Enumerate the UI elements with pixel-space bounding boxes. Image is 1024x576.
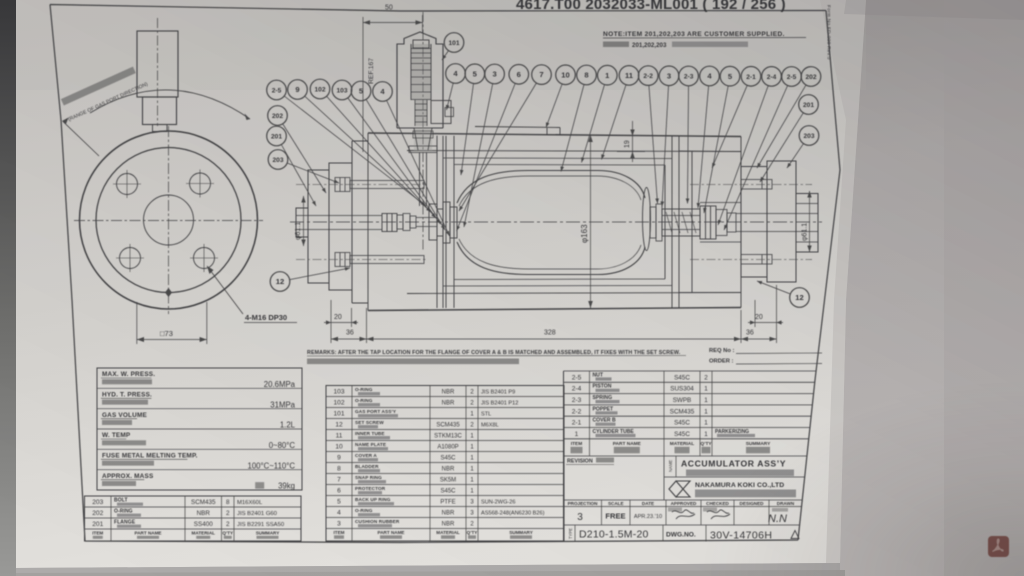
stem entry bands xyxy=(413,131,433,138)
balloon 202l xyxy=(268,106,288,126)
balloon 203l leader xyxy=(287,163,339,183)
flange center hole xyxy=(144,195,194,245)
bladder inner xyxy=(459,176,641,269)
bolt hole bottom-left xyxy=(116,244,144,272)
poppet seat bands xyxy=(650,204,662,241)
drawing frame border xyxy=(50,5,840,543)
balloon 5c xyxy=(351,81,371,101)
dim 19 xyxy=(617,121,645,162)
4-M16 label leader xyxy=(207,266,243,314)
balloon 4a xyxy=(446,64,466,84)
right bolt axis upper xyxy=(690,184,812,186)
balloon 201l xyxy=(267,126,287,146)
gas port leader line xyxy=(63,122,99,157)
dim phi163 xyxy=(590,135,592,308)
bottom dim line xyxy=(331,338,777,340)
balloon 201r leader xyxy=(760,113,803,182)
balloon 11 leader xyxy=(602,85,627,160)
balloon 2-4 leader xyxy=(718,86,768,225)
flange view outer circle xyxy=(80,131,258,309)
valve stem lines xyxy=(420,153,427,207)
gas port stub xyxy=(153,125,168,132)
balloon 103 leader xyxy=(348,98,441,224)
balloon 5b xyxy=(720,66,740,86)
balloon 202r leader xyxy=(757,85,806,168)
balloon 3b leader xyxy=(662,86,669,207)
dim phi61.1 right xyxy=(809,191,811,252)
diamond mark on bolt circle bottom xyxy=(165,288,172,297)
balloon 2-3 leader xyxy=(688,86,689,204)
valve stem taper xyxy=(414,128,432,150)
flange center lines xyxy=(74,126,263,314)
balloon 9 xyxy=(288,80,308,100)
balloon 3a xyxy=(485,64,505,84)
shell outer top xyxy=(368,133,741,137)
gas port range JP label xyxy=(61,67,136,106)
approved signature xyxy=(672,510,695,519)
dim 20 left xyxy=(324,322,358,324)
balloon 102 xyxy=(310,79,330,99)
balloon 8 leader xyxy=(561,85,584,172)
bolt hole bottom-right xyxy=(190,244,218,272)
balloon 9 leader xyxy=(305,96,431,212)
balloon 2-5a leader xyxy=(284,96,426,206)
balloon 202r xyxy=(801,67,821,87)
balloon 203l xyxy=(268,150,288,170)
dim 50 xyxy=(363,15,423,152)
balloon 3b xyxy=(659,66,679,86)
spec table xyxy=(97,368,302,490)
poppet washer xyxy=(716,210,727,236)
lower-left parts table xyxy=(85,496,302,541)
right bolt axis lower xyxy=(690,259,812,261)
bolt hole top-right xyxy=(186,170,214,198)
flange view bolt circle xyxy=(96,148,241,293)
square-73 dim line xyxy=(137,339,207,341)
left pipe stub xyxy=(296,208,308,237)
right parts table xyxy=(563,371,565,542)
right flange plate outer xyxy=(767,161,796,282)
arc small arrow left xyxy=(62,118,69,125)
liner top lines xyxy=(443,158,672,165)
left flange plate outer xyxy=(308,170,329,283)
balloon 5c leader xyxy=(366,99,445,230)
left port bore lines xyxy=(296,216,382,230)
projection header row xyxy=(601,500,603,525)
left bolt upper xyxy=(335,178,424,192)
stem to clamp lines xyxy=(416,218,437,227)
balloon 5a leader xyxy=(461,84,474,176)
balloon 2-4 xyxy=(762,67,782,87)
balloon 6 leader xyxy=(457,83,516,231)
left center plug hex xyxy=(382,214,397,232)
balloon 12r xyxy=(790,288,810,308)
note JP line xyxy=(603,42,629,48)
poppet body xyxy=(662,209,700,236)
gas port neck lower rect xyxy=(143,97,177,125)
balloon 12l leader xyxy=(290,268,350,280)
valve side nozzle xyxy=(431,101,451,124)
balloon 102 leader xyxy=(327,96,436,218)
bladder outer xyxy=(457,171,645,275)
gas port direction arc xyxy=(90,90,250,119)
balloon 101 leader xyxy=(442,51,449,60)
balloon 4c xyxy=(373,82,393,102)
balloon 2-1 xyxy=(741,67,761,87)
dark left bezel strip xyxy=(0,0,16,576)
balloon 2-2 xyxy=(638,66,658,86)
balloon 7 xyxy=(532,65,552,85)
bladder clamp stack xyxy=(429,202,457,243)
balloon 1 leader xyxy=(582,85,605,163)
gas port neck upper rect xyxy=(137,31,178,97)
left bolt axis upper xyxy=(296,184,428,186)
balloon 12l xyxy=(270,272,290,292)
balloon 10 leader xyxy=(546,84,562,128)
bottom-right corner shade xyxy=(700,380,1024,576)
balloon 2-1 leader xyxy=(712,85,747,168)
strip below paper xyxy=(14,563,840,576)
balloon 7 leader xyxy=(459,83,536,211)
dim phi61.1 left xyxy=(303,196,305,246)
valve stem collar xyxy=(409,146,437,153)
balloon 2-5a xyxy=(267,80,287,100)
balloon 201r xyxy=(799,95,819,115)
shell end verticals left xyxy=(368,133,454,311)
type row xyxy=(574,525,576,542)
left plug washers xyxy=(397,214,416,231)
dim 20 right xyxy=(748,322,783,324)
port center line xyxy=(157,18,159,126)
right port block lines xyxy=(796,204,818,243)
cover B block xyxy=(352,141,368,303)
cover A inner lines xyxy=(679,151,741,293)
valve core shading xyxy=(411,44,431,100)
balloon 11 xyxy=(619,66,639,86)
pdf icon xyxy=(988,536,1009,557)
name plate xyxy=(475,127,560,135)
balloon 1 xyxy=(598,65,618,85)
right bolt upper xyxy=(741,180,772,190)
poppet tip xyxy=(727,213,736,232)
balloon 5a xyxy=(465,64,485,84)
balloon 2-5b leader xyxy=(724,86,788,231)
valve core bands xyxy=(411,49,431,100)
liner bottom lines xyxy=(443,279,672,286)
middle parts table xyxy=(326,386,564,542)
right flange plate inner xyxy=(741,167,767,278)
balloon 5b leader xyxy=(704,86,728,213)
right port bore lines xyxy=(736,214,818,232)
left bolt lower xyxy=(335,253,424,267)
shell inner bottom xyxy=(407,293,741,294)
left flange plate inner xyxy=(329,163,352,290)
balloon 2-5b xyxy=(782,67,802,87)
valve core sides xyxy=(411,44,431,100)
poppet bore lines xyxy=(662,216,700,230)
balloon 10 xyxy=(556,65,576,85)
left bolt axis lower xyxy=(296,259,428,261)
balloon 6 xyxy=(509,65,529,85)
balloon 203r leader xyxy=(787,144,804,168)
company logo xyxy=(669,481,690,497)
bottom dim extensions xyxy=(331,285,777,343)
arc arrowhead xyxy=(245,114,251,121)
valve core cap xyxy=(413,40,429,48)
balloon 2-3 xyxy=(679,66,699,86)
balloon 103 xyxy=(332,80,352,100)
poppet spring xyxy=(666,212,696,233)
valve nozzle tip xyxy=(445,108,454,117)
balloon 8 xyxy=(577,65,597,85)
valve center axis xyxy=(422,12,424,250)
shell end verticals right xyxy=(665,136,741,308)
paper top shading xyxy=(15,0,866,90)
main center axis xyxy=(290,221,822,223)
balloon 101 xyxy=(444,33,464,53)
balloon 4c leader xyxy=(387,100,450,236)
balloon 201l leader xyxy=(281,145,316,207)
balloon 2-2 leader xyxy=(649,85,658,203)
valve lower core xyxy=(415,100,427,126)
poppet seat ellipse xyxy=(643,188,651,251)
valve housing xyxy=(397,32,443,128)
remarks JP xyxy=(307,359,519,365)
balloon 203r xyxy=(799,126,819,146)
right bolt lower xyxy=(741,255,772,265)
balloon 12r leader xyxy=(757,281,790,294)
square-73 dim extension lines xyxy=(137,302,207,344)
balloon 4b leader xyxy=(698,86,709,208)
shell outer bottom xyxy=(368,308,741,311)
shell inner top xyxy=(407,151,741,152)
right port block xyxy=(796,194,818,253)
bolt hole top-left xyxy=(113,170,141,198)
balloon 4b xyxy=(700,66,720,86)
right-side slightly darker panel xyxy=(944,0,1024,576)
balloon 202l leader xyxy=(283,124,326,193)
balloon 4a leader xyxy=(447,83,454,110)
checked signature xyxy=(707,510,730,519)
balloon 3a leader xyxy=(464,84,493,227)
poppet hex nut xyxy=(700,206,716,239)
